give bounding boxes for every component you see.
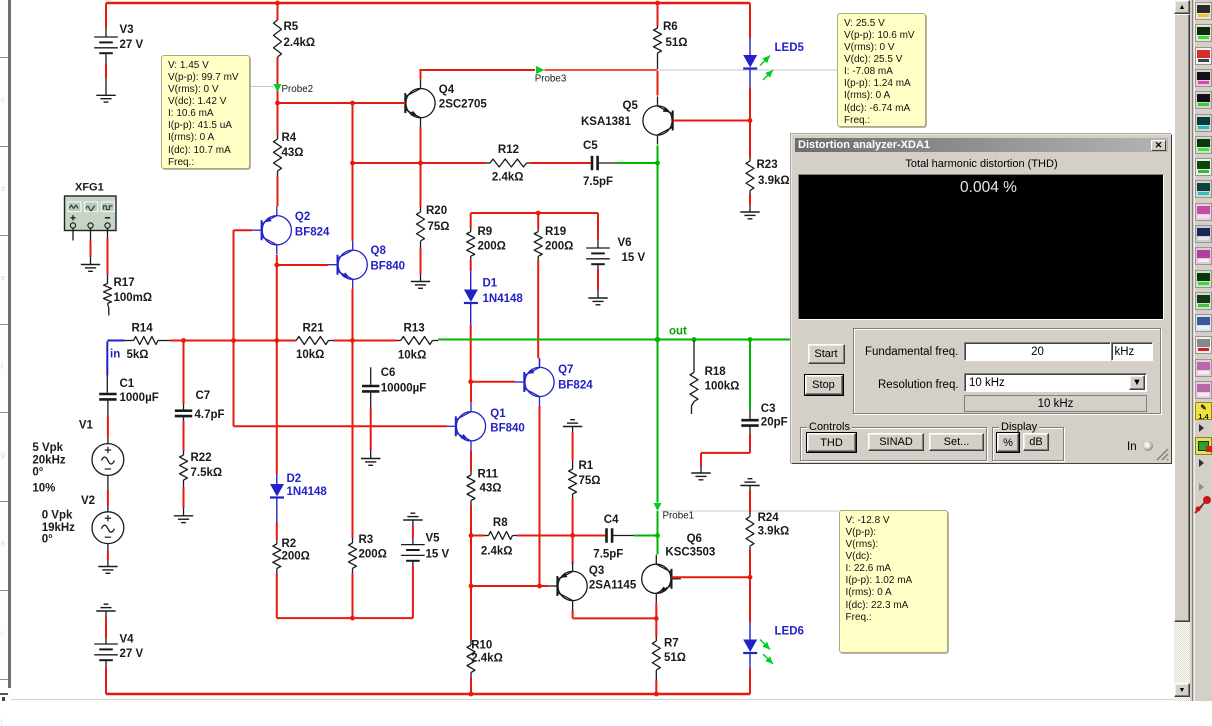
transistor Q1 BF840 [456,412,485,441]
junction R8 node [469,533,474,538]
ground XFG1 [81,264,100,266]
junction R24/Q6 base/LED6 [748,575,753,580]
junction Q5 base/R23 [748,118,753,123]
svg-text:Q4: Q4 [439,84,455,96]
wire R20 to ground [420,241,422,248]
svg-text:0 Vpk: 0 Vpk [42,510,73,522]
svg-text:in: in [110,349,120,361]
wire Q2 base corner [234,229,253,231]
wire node to Q7 base [471,381,515,383]
junction Q7 collector/Q3 base [537,584,542,589]
junction wireA x233 [231,338,236,343]
junction R19 top [536,211,541,216]
wire R10 to rail [470,673,472,678]
resistor R21 10k [296,337,328,345]
svg-text:LED6: LED6 [775,626,804,638]
wire V5 to bottom wire [412,561,414,566]
battery V3 [94,36,118,38]
wire V3 to ground [105,54,107,64]
svg-text:200Ω: 200Ω [478,241,506,253]
svg-text:V3: V3 [120,24,134,36]
wire R14 to R21 [170,340,297,342]
LED LED5 [749,39,751,56]
wire to R23 [749,121,751,158]
wire node to Q3 emitter [572,536,574,564]
transistor Q8 BF840 [338,250,367,279]
svg-text:R22: R22 [191,452,212,464]
diode D1 1N4148 [470,256,472,260]
wire green C3 branch [749,340,751,411]
svg-text:R21: R21 [303,323,325,335]
wire out net green [438,339,791,341]
wire Q1 base junctions down [470,536,472,587]
svg-text:R14: R14 [132,323,154,335]
svg-text:Probe3: Probe3 [535,74,567,85]
wire R24 to Q6 base node [749,546,751,550]
wire Q4 collector to Probe3 [420,69,536,71]
wire R5 top stub [277,3,279,20]
svg-text:4.7pF: 4.7pF [195,409,225,421]
THD button [807,433,856,452]
wire C3 to ground [749,426,751,434]
junction Q7 base node [468,379,473,384]
svg-text:R20: R20 [426,205,447,217]
battery V6 15V [597,213,599,240]
resistor R20 75 [420,207,422,212]
wire input net in [107,340,124,342]
black display [798,174,1164,320]
Set button [929,433,984,451]
annotation line probe1 box [661,510,839,512]
wire green out to Probe1 [657,340,659,503]
svg-text:43Ω: 43Ω [282,147,304,159]
svg-text:3.9kΩ: 3.9kΩ [758,526,790,538]
svg-text:R3: R3 [359,534,374,546]
junction x352 top [350,101,355,106]
svg-text:BF840: BF840 [371,261,406,273]
svg-text:R24: R24 [758,512,780,524]
wire node to Q4 base [278,102,406,104]
svg-text:C6: C6 [381,367,396,379]
svg-text:20pF: 20pF [761,417,788,429]
resistor R11 43 [470,471,472,475]
wire R4 to Q2 emitter [277,171,279,176]
junction C7 top [181,338,186,343]
capacitor C1 1000uF [106,376,108,393]
svg-text:R4: R4 [282,132,297,144]
svg-text:27 V: 27 V [120,39,144,51]
Fundamental freq label [865,346,958,358]
resistor R6 51 [657,26,659,28]
svg-text:Q6: Q6 [687,533,702,545]
svg-text:0°: 0° [32,467,43,479]
svg-text:10000µF: 10000µF [381,383,427,395]
svg-text:XFG1: XFG1 [75,182,104,194]
junction Q8 emitter net [350,338,355,343]
ground below V6 [588,297,607,299]
annotation line probe2 box [250,86,274,88]
svg-text:Q1: Q1 [490,408,506,420]
junction green C4/out [655,533,660,538]
svg-text:KSA1381: KSA1381 [581,116,631,128]
instruments toolbar [1190,0,1212,701]
wire top rail right corner down [749,3,751,39]
svg-text:C5: C5 [583,140,598,152]
resistor R8 2.4k [471,535,485,537]
svg-text:0°: 0° [42,534,53,546]
resistor R9 200 [470,228,472,232]
junction x277 mid [274,338,279,343]
wire V3 top lead [105,3,107,28]
wire XFG1 minus to R17 [107,228,109,238]
svg-text:2.4kΩ: 2.4kΩ [481,546,513,558]
transistor Q2 BF824 [262,216,291,245]
ground below R22 [174,515,193,517]
wire R6 top stub [657,3,659,26]
wire Q2 junction down [276,265,278,341]
ground above R24 [748,478,753,480]
wire LED5 to Q5 base junction [749,88,751,121]
percent button [997,433,1019,452]
dB button [1023,433,1049,451]
wire Q2 collector to junction [276,255,278,265]
wire green to Q6 collector [657,536,659,555]
probe Probe1 [654,503,662,511]
svg-text:BF840: BF840 [490,423,525,435]
junction node R5/R4 [275,101,280,106]
resistor R14 5k [125,340,134,342]
left panel edge ruler [0,0,12,701]
svg-text:10%: 10% [32,483,55,495]
wire Q8 emitter down [352,289,354,341]
ground above R1 [570,419,575,421]
svg-text:1N4148: 1N4148 [483,293,524,305]
wire ground to R1 [572,427,574,433]
wire R21 to R13 [333,340,397,342]
ground below R20 [411,281,430,283]
probe annotation box Probe2 [161,55,250,169]
resistor R12 2.4k [486,162,490,164]
wire R7 to rail [655,670,657,680]
resistor R3 200 [352,538,354,543]
wire V4 to rail [105,660,107,667]
capacitor C3 20pF [749,410,751,419]
source V2 [92,512,124,544]
svg-text:75Ω: 75Ω [428,221,450,233]
source V1 [92,444,124,476]
svg-text:10kΩ: 10kΩ [296,349,324,361]
resistor R2 200 [276,540,278,544]
junction Q4/R12 [418,161,423,166]
Resolution freq label [878,379,959,391]
LED LED6 [749,577,751,623]
wire C6 to ground [370,391,372,408]
wire R23 to ground [749,191,751,195]
svg-text:Probe2: Probe2 [282,84,314,95]
junction R1/Q3 emitter [570,533,575,538]
svg-text:27 V: 27 V [120,648,144,660]
svg-text:R23: R23 [757,159,778,171]
THD caption [792,158,1171,170]
probe Probe2 [274,84,282,92]
ground below V3 [96,94,115,96]
resistor R22 7.5k [183,451,185,455]
wire green probe1 to C4 node [657,511,659,536]
wire Q1 collector up to node [470,382,472,403]
svg-text:C4: C4 [604,514,619,526]
transistor Q7 BF824 [525,367,554,396]
junction R10 rail [469,692,474,697]
svg-text:V1: V1 [79,420,94,432]
wire R12 left segment [353,162,487,164]
corner splitter [0,688,11,701]
svg-text:R19: R19 [545,226,566,238]
wire C4 to out green [613,535,634,537]
fundamental input [964,342,1111,361]
svg-text:7.5kΩ: 7.5kΩ [191,467,223,479]
svg-text:R6: R6 [663,21,678,33]
resistor R4 43 [277,103,279,135]
svg-text:51Ω: 51Ω [664,652,686,664]
Start button [808,344,845,364]
svg-text:R17: R17 [114,277,135,289]
resistor R24 3.9k [746,517,754,547]
junction Q3 base node [469,584,474,589]
svg-text:R13: R13 [404,323,425,335]
Stop button [805,375,843,395]
svg-text:Q8: Q8 [371,245,387,257]
wire R5 to node [277,57,279,103]
capacitor C5 7.5pF [591,156,594,171]
wire R11 to R8 node [470,501,472,506]
wire R12 to C5 [531,162,591,164]
svg-text:51Ω: 51Ω [666,37,688,49]
probe annotation box Probe3 [837,13,926,127]
wire Q3 collector down corner [572,610,574,618]
wire C5 to Q5 emitter green [599,162,616,164]
svg-text:V5: V5 [426,533,441,545]
svg-text:V6: V6 [618,237,632,249]
svg-text:R12: R12 [498,144,519,156]
resistor R1 75 [569,469,577,494]
svg-text:7.5pF: 7.5pF [583,176,613,188]
resistor R7 51 [655,618,657,637]
diode D2 1N4148 [276,474,278,484]
wire R18 dangling stub [692,402,695,415]
wire LED6 to rail [749,668,751,694]
junction Q6 emitter [654,616,659,621]
svg-text:D2: D2 [287,473,302,485]
junction green R18 [692,337,697,342]
wire R19 to Q7 emitter [537,256,539,260]
transistor Q3 2SA1145 [558,571,587,600]
wire V1 to V2 [107,475,109,490]
svg-text:10kΩ: 10kΩ [398,350,426,362]
svg-text:5 Vpk: 5 Vpk [32,442,63,454]
wire Q5 base to LED node [673,120,750,122]
svg-text:Q7: Q7 [558,364,573,376]
Controls groupbox [800,427,987,461]
wire D2 to R2 [276,522,278,540]
battery V5 15V [412,520,414,526]
svg-text:75Ω: 75Ω [579,475,601,487]
wire R1 to node [572,494,574,499]
transistor Q6 KSC3503 [642,564,671,593]
wire V2 to ground [107,544,109,551]
wire x233 down to Q1 base [233,341,235,427]
svg-text:2.4kΩ: 2.4kΩ [492,172,524,184]
svg-text:LED5: LED5 [775,42,805,54]
wire Q4 emitter to R20 [420,163,422,207]
svg-text:out: out [669,326,687,338]
wire R3 to bottom wire [352,568,354,573]
svg-text:R10: R10 [471,640,492,652]
probe Probe3 [536,66,545,74]
svg-text:2.4kΩ: 2.4kΩ [284,37,316,49]
svg-text:2SA1145: 2SA1145 [589,580,637,592]
resolution combo [964,373,1147,392]
junction green C3 corner [748,337,753,342]
wire top +27V rail [106,2,750,5]
wire node to Q3 base [471,585,548,587]
transistor Q5 KSA1381 [643,106,672,135]
resistor R23 3.9k [749,158,751,162]
ground above V5 [411,512,416,514]
capacitor C4 7.5pF [605,528,608,543]
svg-text:V4: V4 [120,634,135,646]
svg-text:R11: R11 [478,469,499,481]
fields panel [853,328,1161,414]
junction R6 top [655,1,660,6]
wire Q8 collector up [352,103,354,241]
probe annotation box Probe1 [839,510,948,653]
wire ground to R24 [749,486,751,491]
svg-text:R5: R5 [284,21,299,33]
svg-text:20kHz: 20kHz [32,455,65,467]
ground below C6 [361,458,380,460]
wire node down to R10 [470,586,472,641]
junction R7 rail [654,692,659,697]
Display groupbox [992,427,1064,461]
junction x352/R12 [350,161,355,166]
svg-text:R9: R9 [478,226,493,238]
wire Probe3 to R6 node thin [545,69,658,71]
svg-text:Q5: Q5 [623,100,639,112]
ground below V2 [98,566,117,568]
svg-text:7.5pF: 7.5pF [593,549,623,561]
svg-text:R2: R2 [282,538,297,550]
resistor R19 200 [537,213,539,228]
svg-text:V2: V2 [81,495,95,507]
wire Q4 collector up [420,70,422,79]
SINAD button [868,433,924,451]
resistor R5 2.4k [274,20,282,57]
resistor R13 10k [397,340,401,342]
junction green out x657 [655,337,661,343]
wire Q7 emitter up to R19 [539,358,541,367]
svg-text:R18: R18 [705,366,727,378]
In connector [1127,441,1137,453]
junction Q2 collector [274,263,279,268]
wire Q7 collector down [539,406,541,586]
wire Q6 emitter to node [655,603,657,619]
resistor R17 100m [104,284,112,304]
svg-text:100kΩ: 100kΩ [705,381,740,393]
kHz box [1111,342,1153,361]
battery V4 27V [94,643,118,645]
wire x277 down to D2 [276,341,278,475]
svg-text:Q2: Q2 [295,211,310,223]
canvas bottom sheet border [10,699,1174,700]
wire R17 dangling stub [108,304,109,316]
svg-text:19kHz: 19kHz [42,522,75,534]
function generator XFG1 [65,196,117,231]
junction R3 bottom [350,616,355,621]
svg-text:43Ω: 43Ω [480,483,502,495]
svg-text:C1: C1 [120,378,135,390]
capacitor C7 4.7pF [183,341,185,405]
transistor Q4 2SC2705 [406,89,435,118]
wire R2 to bottom corner [276,569,278,574]
junction R5 top [275,1,280,6]
wire Q2 junction to Q8 base [277,264,328,266]
wire XFG1 common to ground [90,228,92,241]
svg-text:2.4kΩ: 2.4kΩ [471,653,503,665]
svg-text:BF824: BF824 [295,227,330,239]
ground below R23 [740,211,759,213]
svg-text:2SC2705: 2SC2705 [439,99,488,111]
resize grip [1156,448,1169,461]
wire Q4 emitter down [420,127,422,163]
svg-text:BF824: BF824 [558,380,593,392]
wire D1 to Q7 node [470,325,472,382]
svg-text:100mΩ: 100mΩ [114,292,153,304]
instrument window Distortion analyzer-XDA1 [791,134,1172,464]
wire V4 chain [104,603,109,605]
svg-text:Q3: Q3 [589,565,604,577]
svg-text:D1: D1 [483,278,498,290]
svg-text:1N4148: 1N4148 [287,486,328,498]
svg-text:C3: C3 [761,403,776,415]
wire R22 to ground [183,480,185,487]
svg-text:15 V: 15 V [426,549,450,561]
resistor R18 100k [693,341,695,373]
svg-text:1000µF: 1000µF [120,392,159,404]
resistor chain R9 top wire [471,212,598,214]
svg-text:5kΩ: 5kΩ [127,349,149,361]
title bar [795,138,1168,152]
svg-text:Probe1: Probe1 [663,511,695,522]
wire Q5 emitter green down [657,146,659,164]
svg-text:15 V: 15 V [622,252,646,264]
wire XFG1 plus stub [72,228,74,240]
svg-text:R8: R8 [493,517,508,529]
capacitor C6 10000uF [370,367,372,385]
svg-text:200Ω: 200Ω [359,549,387,561]
svg-text:3.9kΩ: 3.9kΩ [758,175,790,187]
wire x352 down to R3 [352,341,354,539]
wire R8 to C4 [517,535,605,537]
wire Q4 base red [396,102,405,104]
wire C7 to R22 [183,416,185,421]
svg-text:KSC3503: KSC3503 [665,547,715,559]
junction green C5/Q5 [655,161,660,166]
wire green to out node [657,163,659,340]
wire bottom rail [106,693,750,696]
wire V6 to ground [597,264,599,269]
resolution readout [964,395,1147,412]
svg-text:R7: R7 [664,638,679,650]
